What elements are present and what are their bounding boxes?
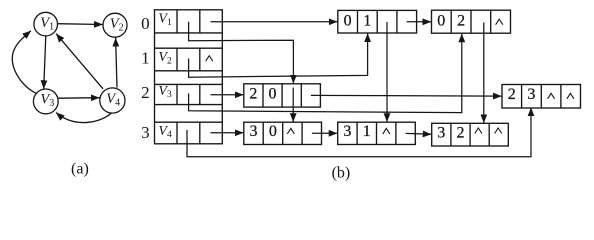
node (3,2) tlink null caret [495,128,502,134]
wire node (0,2) hlink -> node (3,2) [483,23,485,123]
svg-text:V1: V1 [158,12,172,28]
edge V1->V3 [44,36,46,89]
edge node (2,3) box [502,85,581,109]
svg-text:2: 2 [457,12,465,29]
edge V1->V2 [58,23,103,26]
edge V4->V3 curved [56,113,112,123]
edge node (3,0) box [244,122,322,144]
wire node (2,0) hlink -> node (3,0) [292,88,294,122]
svg-text:3: 3 [250,123,258,140]
svg-text:V4: V4 [158,124,172,140]
wire node (3,0) tlink -> node (3,1) [312,132,337,134]
wire node (0,1) hlink -> node (3,1) [386,22,388,122]
edge node (2,0) box [244,84,321,107]
edge node (0,1) box [338,10,417,33]
svg-text:0: 0 [269,86,277,103]
vertex V3 circle [33,89,58,114]
vertex V2 circle [103,13,127,37]
null caret in V2 firstout cell [206,56,213,62]
svg-text:3: 3 [527,86,535,103]
edge V3->V1 curved [12,31,35,93]
node (3,1) hlink null caret [383,128,390,134]
edge node (3,2) box [432,123,509,146]
svg-text:0: 0 [141,14,150,33]
wire node (0,1) tlink -> node (0,2) [407,21,431,23]
node (0,2) tlink null caret [496,19,503,25]
svg-text:3: 3 [437,125,445,142]
svg-text:2: 2 [249,86,257,103]
edge node (3,1) box [338,122,416,144]
svg-text:1: 1 [363,12,371,29]
edge V4->V2 [116,38,117,88]
svg-text:1: 1 [141,48,150,67]
node (2,3) tlink null caret [567,93,574,98]
wire V4 firstout -> node (3,0) [211,132,244,134]
svg-text:2: 2 [508,86,516,103]
vertex V4 circle [100,88,125,113]
row 2 box V3 [155,83,223,85]
node (3,0) hlink null caret [287,128,294,134]
svg-text:0: 0 [269,123,277,140]
edge node (0,2) box [432,10,511,33]
node (2,3) hlink null caret [548,93,555,98]
row 3 box V4 [155,121,223,123]
svg-text:3: 3 [141,123,150,142]
svg-text:V3: V3 [158,84,172,100]
wire V1 firstout -> node (0,1) [211,21,338,23]
svg-text:3: 3 [343,123,351,140]
wire node (3,1) tlink -> node (3,2) [406,132,432,135]
svg-text:2: 2 [141,83,150,102]
node (3,2) hlink null caret [475,128,482,134]
wire V2 firstin -> node (0,1) [189,34,368,78]
row 0 box V1 [155,32,223,34]
row 1 box V2 [155,47,223,49]
edge V3->V4 [58,97,99,100]
svg-text:1: 1 [363,123,371,140]
edge V4->V1 [56,34,103,89]
vertex array outer box [155,10,223,144]
svg-text:(b): (b) [332,164,351,181]
wire V4 firstin -> node (2,3) [187,108,531,157]
wire V3 firstin -> node (0,2) [189,34,462,113]
svg-text:2: 2 [457,125,465,142]
svg-text:V2: V2 [158,50,172,66]
vertex V1 circle [34,12,58,36]
svg-text:0: 0 [437,12,445,29]
wire V3 firstout -> node (2,0) [211,94,244,96]
wire V1 firstin -> node (2,0) [189,22,294,84]
svg-text:0: 0 [344,12,352,29]
svg-text:(a): (a) [71,160,89,177]
wire node (2,0) tlink -> node (2,3) [311,94,502,97]
